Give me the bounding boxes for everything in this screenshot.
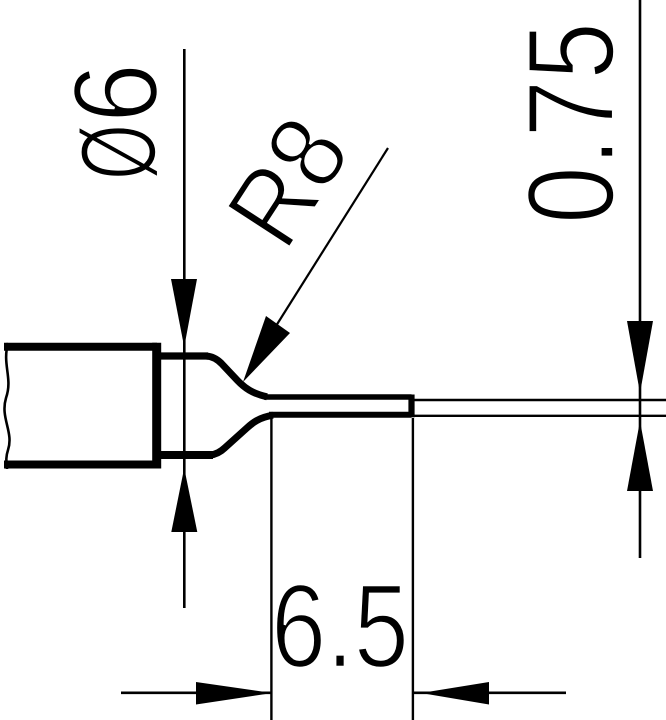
shaft end vertical edge [152,343,161,469]
svg-text:0.75: 0.75 [504,22,641,224]
dimension line 0.75 [639,0,642,558]
extension line 0.75 top [415,399,666,401]
leader line R8 [264,148,388,345]
arrow 6.5 left [196,682,273,705]
svg-text:6: 6 [49,63,183,123]
dimension line 6.5 right [413,691,566,694]
shaft break line [4,343,9,469]
arrow 0.75 upper [627,321,653,393]
taper bottom curve [210,415,273,455]
extension line 6.5 right [412,418,414,720]
arrow Ø6 upper [171,279,197,347]
arrow 6.5 right [421,682,489,705]
shaft bottom edge [4,461,157,469]
svg-text:Ø: Ø [58,124,179,180]
shaft top edge [4,343,157,351]
arrow Ø6 lower [171,468,197,532]
arrow 0.75 lower [627,421,653,491]
svg-text:6.5: 6.5 [271,561,409,693]
leader arrow R8 [243,316,290,382]
tip end edge [408,395,414,418]
extension line 0.75 bottom [415,415,666,417]
taper top curve [206,356,267,397]
extension line 6.5 left [270,418,272,720]
dimension line 6.5 left [121,691,271,694]
neck bottom edge [157,451,213,459]
dimension line Ø6 [183,49,186,608]
neck top edge [157,352,208,359]
tip top edge [264,394,412,400]
tip bottom edge [269,412,412,418]
